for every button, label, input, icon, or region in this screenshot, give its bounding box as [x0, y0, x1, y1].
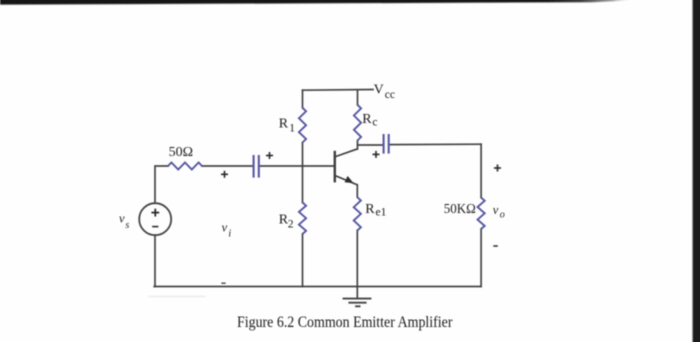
- svg-text:V: V: [374, 83, 384, 98]
- svg-text:v: v: [493, 203, 499, 217]
- svg-text:i: i: [228, 228, 231, 239]
- svg-text:50Ω: 50Ω: [169, 145, 193, 160]
- svg-text:e1: e1: [376, 206, 387, 218]
- svg-text:R: R: [365, 202, 375, 217]
- svg-text:1: 1: [289, 122, 295, 134]
- svg-text:v: v: [222, 221, 228, 235]
- svg-text:R: R: [362, 112, 372, 127]
- svg-text:Figure 6.2 Common Emitter Ampl: Figure 6.2 Common Emitter Amplifier: [237, 314, 453, 331]
- svg-text:R: R: [279, 116, 289, 131]
- svg-text:2: 2: [288, 219, 294, 231]
- svg-text:o: o: [500, 210, 505, 221]
- svg-text:v: v: [119, 212, 125, 226]
- svg-text:cc: cc: [385, 89, 395, 101]
- svg-text:s: s: [125, 220, 129, 231]
- svg-text:c: c: [372, 117, 377, 129]
- svg-text:50KΩ: 50KΩ: [444, 202, 476, 217]
